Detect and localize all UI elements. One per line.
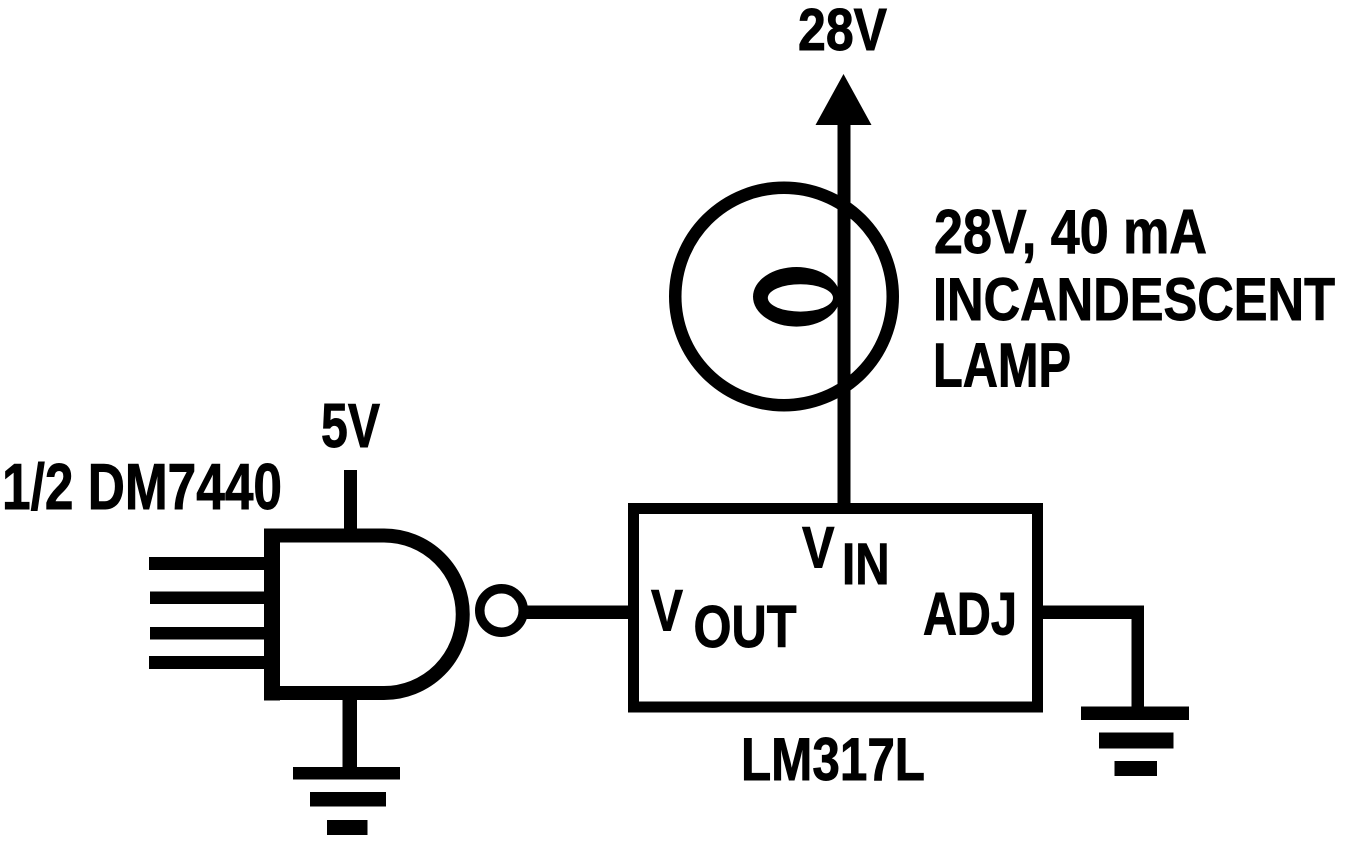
svg-text:1/2 DM7440: 1/2 DM7440 bbox=[2, 450, 282, 523]
svg-text:OUT: OUT bbox=[694, 594, 797, 660]
lamp DS1 filament ellipse bbox=[753, 267, 840, 327]
svg-text:28V: 28V bbox=[798, 0, 887, 63]
svg-text:LM317L: LM317L bbox=[741, 725, 925, 793]
wire ADJ to ground (horizontal) bbox=[1037, 606, 1144, 620]
ground symbol at gate: bar 3 bbox=[327, 820, 368, 835]
wire ADJ to ground (vertical) bbox=[1132, 606, 1145, 707]
svg-text:V: V bbox=[651, 579, 683, 644]
wire gate output to VOUT (horizontal) bbox=[520, 606, 636, 620]
ground symbol at ADJ: bar 1 bbox=[1081, 707, 1189, 721]
svg-text:LAMP: LAMP bbox=[933, 332, 1071, 401]
ground symbol at gate: bar 2 bbox=[310, 792, 386, 807]
gate input pin 2 bbox=[150, 592, 266, 605]
ground symbol at gate: bar 1 bbox=[293, 767, 400, 780]
svg-text:28V, 40 mA: 28V, 40 mA bbox=[934, 198, 1207, 267]
lamp value label 28V, 40 mA INCANDESCENT LAMP bbox=[933, 198, 1335, 401]
ground symbol at ADJ: bar 2 bbox=[1099, 733, 1174, 749]
arrowhead 28V supply bbox=[816, 74, 872, 125]
pin label VOUT bbox=[651, 579, 797, 661]
pin label VIN bbox=[802, 516, 890, 598]
wire 28V supply to VIN (vertical) bbox=[838, 112, 851, 512]
NAND gate U2 body (1/2 DM7440) bbox=[264, 529, 463, 701]
regulator U1 LM317L box bbox=[634, 509, 1038, 708]
ground symbol at ADJ: bar 3 bbox=[1115, 761, 1158, 776]
svg-text:V: V bbox=[802, 516, 835, 581]
gate input pin 3 bbox=[150, 627, 266, 640]
gate inversion bubble bbox=[480, 589, 524, 633]
lamp DS1 bulb circle bbox=[675, 188, 893, 406]
gate input pin 4 bbox=[149, 656, 266, 669]
wire 5V supply to gate (vertical) bbox=[344, 470, 357, 532]
gate input pin 1 bbox=[149, 557, 266, 570]
svg-text:5V: 5V bbox=[321, 392, 380, 461]
svg-text:IN: IN bbox=[842, 532, 890, 597]
svg-text:INCANDESCENT: INCANDESCENT bbox=[933, 265, 1335, 333]
wire gate to ground (vertical) bbox=[343, 697, 358, 768]
svg-text:ADJ: ADJ bbox=[923, 580, 1017, 648]
